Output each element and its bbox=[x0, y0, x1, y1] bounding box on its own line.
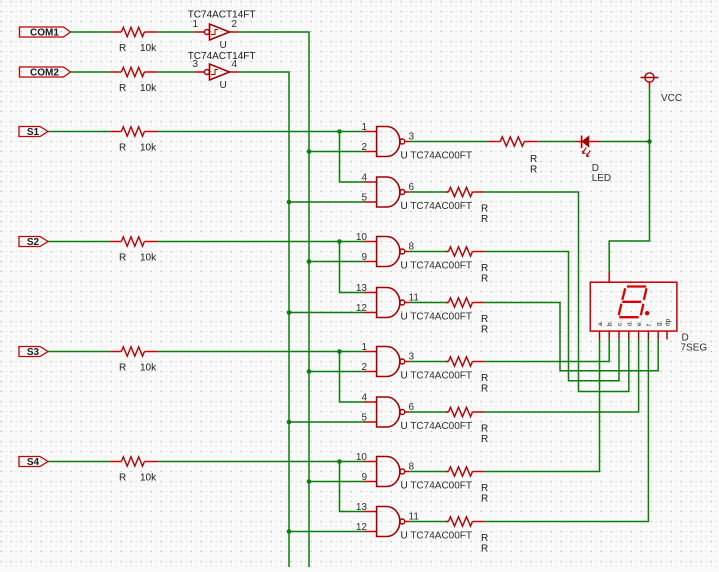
connector COM2 bbox=[20, 67, 71, 79]
svg-text:R: R bbox=[481, 544, 488, 555]
nand-gate U TC74AC00FT D1 bbox=[365, 457, 410, 487]
wire COM2 resistor to inverter U input bbox=[158, 71, 195, 73]
wire COM2-inverted to gate input bbox=[289, 312, 365, 314]
svg-text:12: 12 bbox=[356, 522, 368, 533]
connector COM1 bbox=[20, 27, 71, 39]
resistor R (output B1) bbox=[446, 247, 484, 256]
junction COM2-inverted bus bbox=[287, 310, 292, 315]
wire gate D2 output to 7seg pin f bbox=[484, 340, 649, 522]
svg-text:U: U bbox=[220, 80, 227, 91]
resistor R (LED series) bbox=[488, 137, 538, 146]
junction LED-VCC node bbox=[647, 139, 652, 144]
junction COM2-inverted bus bbox=[287, 200, 292, 205]
wire COM1-inverted to gate input bbox=[309, 481, 365, 483]
wire S3 resistor to gate input bbox=[158, 351, 366, 353]
inverter U TC74ACT14FT #1 bbox=[194, 24, 239, 40]
wire S1 to lower gate input bbox=[340, 132, 366, 183]
svg-text:1: 1 bbox=[361, 342, 367, 353]
resistor R (output C1) bbox=[446, 357, 484, 366]
wire COM2-inverted to gate input bbox=[289, 531, 365, 533]
svg-text:R: R bbox=[481, 274, 488, 285]
svg-text:U TC74AC00FT: U TC74AC00FT bbox=[401, 312, 473, 323]
junction COM2-inverted bus bbox=[287, 529, 292, 534]
connector S2 bbox=[19, 237, 48, 249]
resistor R 10k (S4 input) bbox=[111, 457, 158, 466]
svg-text:R: R bbox=[481, 483, 488, 494]
wire S2 to resistor bbox=[48, 241, 111, 243]
wire gate C1 output to resistor bbox=[410, 361, 449, 363]
svg-text:S2: S2 bbox=[27, 237, 40, 248]
svg-text:d: d bbox=[626, 322, 633, 326]
junction COM1-inverted bus bbox=[307, 149, 312, 154]
svg-text:10k: 10k bbox=[140, 363, 157, 374]
nand-gate U TC74AC00FT C1 bbox=[365, 347, 410, 377]
svg-text:R: R bbox=[530, 165, 537, 176]
junction COM1-inverted bus bbox=[307, 479, 312, 484]
resistor R (output B2) bbox=[446, 298, 484, 307]
svg-text:R: R bbox=[119, 43, 126, 54]
resistor R 10k (S1 input) bbox=[111, 127, 158, 136]
svg-text:R: R bbox=[481, 494, 488, 505]
connector S3 bbox=[19, 347, 48, 359]
nand-gate U TC74AC00FT B2 bbox=[365, 288, 410, 318]
resistor R 10k (COM2 input) bbox=[111, 67, 158, 76]
svg-text:10k: 10k bbox=[140, 83, 157, 94]
wire gate A1 output to resistor bbox=[410, 141, 489, 143]
svg-text:R: R bbox=[481, 373, 488, 384]
junction COM2-inverted bus bbox=[287, 420, 292, 425]
svg-text:S4: S4 bbox=[27, 457, 40, 468]
nand-gate U TC74AC00FT A2 bbox=[365, 177, 410, 207]
svg-text:R: R bbox=[481, 325, 488, 336]
svg-text:U TC74AC00FT: U TC74AC00FT bbox=[401, 421, 473, 432]
svg-text:3: 3 bbox=[192, 59, 198, 70]
7-segment display D 7SEG bbox=[590, 282, 677, 339]
svg-text:COM1: COM1 bbox=[30, 28, 59, 39]
resistor R 10k (S3 input) bbox=[111, 347, 158, 356]
svg-text:U TC74AC00FT: U TC74AC00FT bbox=[401, 261, 473, 272]
svg-text:1: 1 bbox=[192, 19, 198, 30]
svg-text:10: 10 bbox=[356, 232, 368, 243]
svg-text:R: R bbox=[119, 363, 126, 374]
wire COM1-inverted to gate input bbox=[309, 261, 365, 263]
svg-text:U TC74AC00FT: U TC74AC00FT bbox=[401, 201, 473, 212]
wire gate B1 output to 7seg pin c bbox=[484, 252, 620, 381]
svg-text:g: g bbox=[656, 322, 663, 326]
junction COM1-inverted bus bbox=[307, 369, 312, 374]
svg-text:5: 5 bbox=[361, 193, 367, 204]
svg-text:R: R bbox=[481, 424, 488, 435]
svg-text:COM2: COM2 bbox=[30, 68, 59, 79]
wire LED anode to VCC bus bbox=[600, 141, 650, 143]
wire S2 to lower gate input bbox=[340, 242, 366, 293]
wire COM1 resistor to inverter U input bbox=[158, 31, 195, 33]
inverter U TC74ACT14FT #2 bbox=[194, 64, 239, 80]
LED D bbox=[576, 136, 600, 157]
svg-text:VCC: VCC bbox=[661, 93, 682, 104]
svg-text:4: 4 bbox=[361, 393, 367, 404]
svg-text:13: 13 bbox=[356, 502, 368, 513]
svg-text:LED: LED bbox=[592, 173, 611, 184]
svg-text:S1: S1 bbox=[27, 127, 40, 138]
wire gate A2 output to resistor bbox=[410, 191, 449, 193]
wire COM2-inverted to gate input bbox=[289, 201, 365, 203]
svg-text:R: R bbox=[530, 154, 537, 165]
svg-text:10k: 10k bbox=[140, 143, 157, 154]
wire gate C1 output to 7seg pin b bbox=[484, 340, 610, 362]
junction S1 node bbox=[337, 129, 342, 134]
svg-text:12: 12 bbox=[356, 303, 368, 314]
svg-text:R: R bbox=[481, 384, 488, 395]
wire net COM2-inverted (vertical bus) bbox=[239, 72, 289, 567]
wire S2 resistor to gate input bbox=[158, 241, 366, 243]
svg-text:U TC74AC00FT: U TC74AC00FT bbox=[401, 371, 473, 382]
resistor R 10k (S2 input) bbox=[111, 237, 158, 246]
svg-text:R: R bbox=[481, 434, 488, 445]
svg-text:10k: 10k bbox=[140, 43, 157, 54]
wire S4 to lower gate input bbox=[340, 462, 366, 512]
nand-gate U TC74AC00FT C2 bbox=[365, 397, 410, 427]
wire COM2-inverted to gate input bbox=[289, 421, 365, 423]
svg-text:R: R bbox=[481, 533, 488, 544]
wire gate B1 output to resistor bbox=[410, 251, 449, 253]
wire gate D1 output to 7seg pin a bbox=[484, 340, 600, 472]
wire gate C2 output to 7seg pin e bbox=[484, 340, 639, 413]
pin stub 7seg common anode bbox=[608, 272, 610, 282]
connector S1 bbox=[19, 127, 48, 139]
resistor R 10k (COM1 input) bbox=[111, 27, 158, 36]
nand-gate U TC74AC00FT A1 bbox=[365, 127, 410, 157]
junction COM1-inverted bus bbox=[307, 259, 312, 264]
wire S4 resistor to gate input bbox=[158, 461, 366, 463]
nand-gate U TC74AC00FT D2 bbox=[365, 507, 410, 537]
wire resistor to LED cathode bbox=[538, 141, 576, 143]
wire COM1-inverted to gate input bbox=[309, 371, 365, 373]
junction S4 node bbox=[337, 459, 342, 464]
svg-text:dp: dp bbox=[665, 318, 672, 326]
svg-text:S3: S3 bbox=[27, 347, 40, 358]
wire S1 resistor to gate input bbox=[158, 131, 366, 133]
svg-text:10k: 10k bbox=[140, 473, 157, 484]
wire gate B2 output to 7seg pin g bbox=[484, 303, 659, 371]
svg-text:2: 2 bbox=[232, 19, 238, 30]
wire S4 to resistor bbox=[48, 461, 111, 463]
wire gate A2 output to 7seg pin d bbox=[484, 192, 629, 392]
svg-text:U: U bbox=[220, 40, 227, 51]
junction S2 node bbox=[337, 239, 342, 244]
wire net COM1-inverted (vertical bus) bbox=[239, 32, 309, 567]
nand-gate U TC74AC00FT B1 bbox=[365, 237, 410, 267]
svg-text:f: f bbox=[646, 324, 653, 326]
wire gate B2 output to resistor bbox=[410, 302, 449, 304]
resistor R (output D2) bbox=[446, 517, 484, 526]
resistor R (output C2) bbox=[446, 407, 484, 416]
junction S3 node bbox=[337, 349, 342, 354]
wire gate D2 output to resistor bbox=[410, 521, 449, 523]
svg-text:R: R bbox=[481, 204, 488, 215]
resistor R (output D1) bbox=[446, 467, 484, 476]
wire COM2 to resistor bbox=[71, 71, 111, 73]
svg-text:b: b bbox=[607, 322, 614, 326]
svg-text:R: R bbox=[119, 83, 126, 94]
svg-text:9: 9 bbox=[361, 252, 367, 263]
wire S1 to resistor bbox=[48, 131, 111, 133]
svg-text:R: R bbox=[119, 473, 126, 484]
svg-text:10k: 10k bbox=[140, 253, 157, 264]
wire VCC bus to 7seg common anode bbox=[609, 87, 649, 272]
svg-text:U TC74AC00FT: U TC74AC00FT bbox=[401, 531, 473, 542]
svg-text:U TC74AC00FT: U TC74AC00FT bbox=[401, 481, 473, 492]
svg-text:5: 5 bbox=[361, 413, 367, 424]
svg-text:R: R bbox=[119, 253, 126, 264]
svg-text:7SEG: 7SEG bbox=[681, 343, 708, 354]
svg-text:4: 4 bbox=[232, 59, 238, 70]
svg-text:a: a bbox=[597, 322, 604, 326]
wire COM1-inverted to gate input bbox=[309, 151, 365, 153]
svg-text:9: 9 bbox=[361, 472, 367, 483]
svg-text:R: R bbox=[119, 143, 126, 154]
svg-text:2: 2 bbox=[361, 142, 367, 153]
svg-text:U TC74AC00FT: U TC74AC00FT bbox=[401, 151, 473, 162]
svg-text:R: R bbox=[481, 314, 488, 325]
svg-text:e: e bbox=[636, 322, 643, 326]
svg-text:1: 1 bbox=[361, 122, 367, 133]
wire S3 to resistor bbox=[48, 351, 111, 353]
wire gate D1 output to resistor bbox=[410, 471, 449, 473]
power symbol VCC bbox=[641, 73, 659, 87]
svg-text:2: 2 bbox=[361, 362, 367, 373]
svg-text:R: R bbox=[481, 214, 488, 225]
wire gate C2 output to resistor bbox=[410, 411, 449, 413]
svg-text:10: 10 bbox=[356, 452, 368, 463]
wire S3 to lower gate input bbox=[340, 352, 366, 403]
svg-text:R: R bbox=[481, 263, 488, 274]
svg-text:4: 4 bbox=[361, 173, 367, 184]
connector S4 bbox=[19, 457, 48, 469]
wire COM1 to resistor bbox=[71, 31, 111, 33]
resistor R (output A2) bbox=[446, 187, 484, 196]
svg-text:13: 13 bbox=[356, 283, 368, 294]
